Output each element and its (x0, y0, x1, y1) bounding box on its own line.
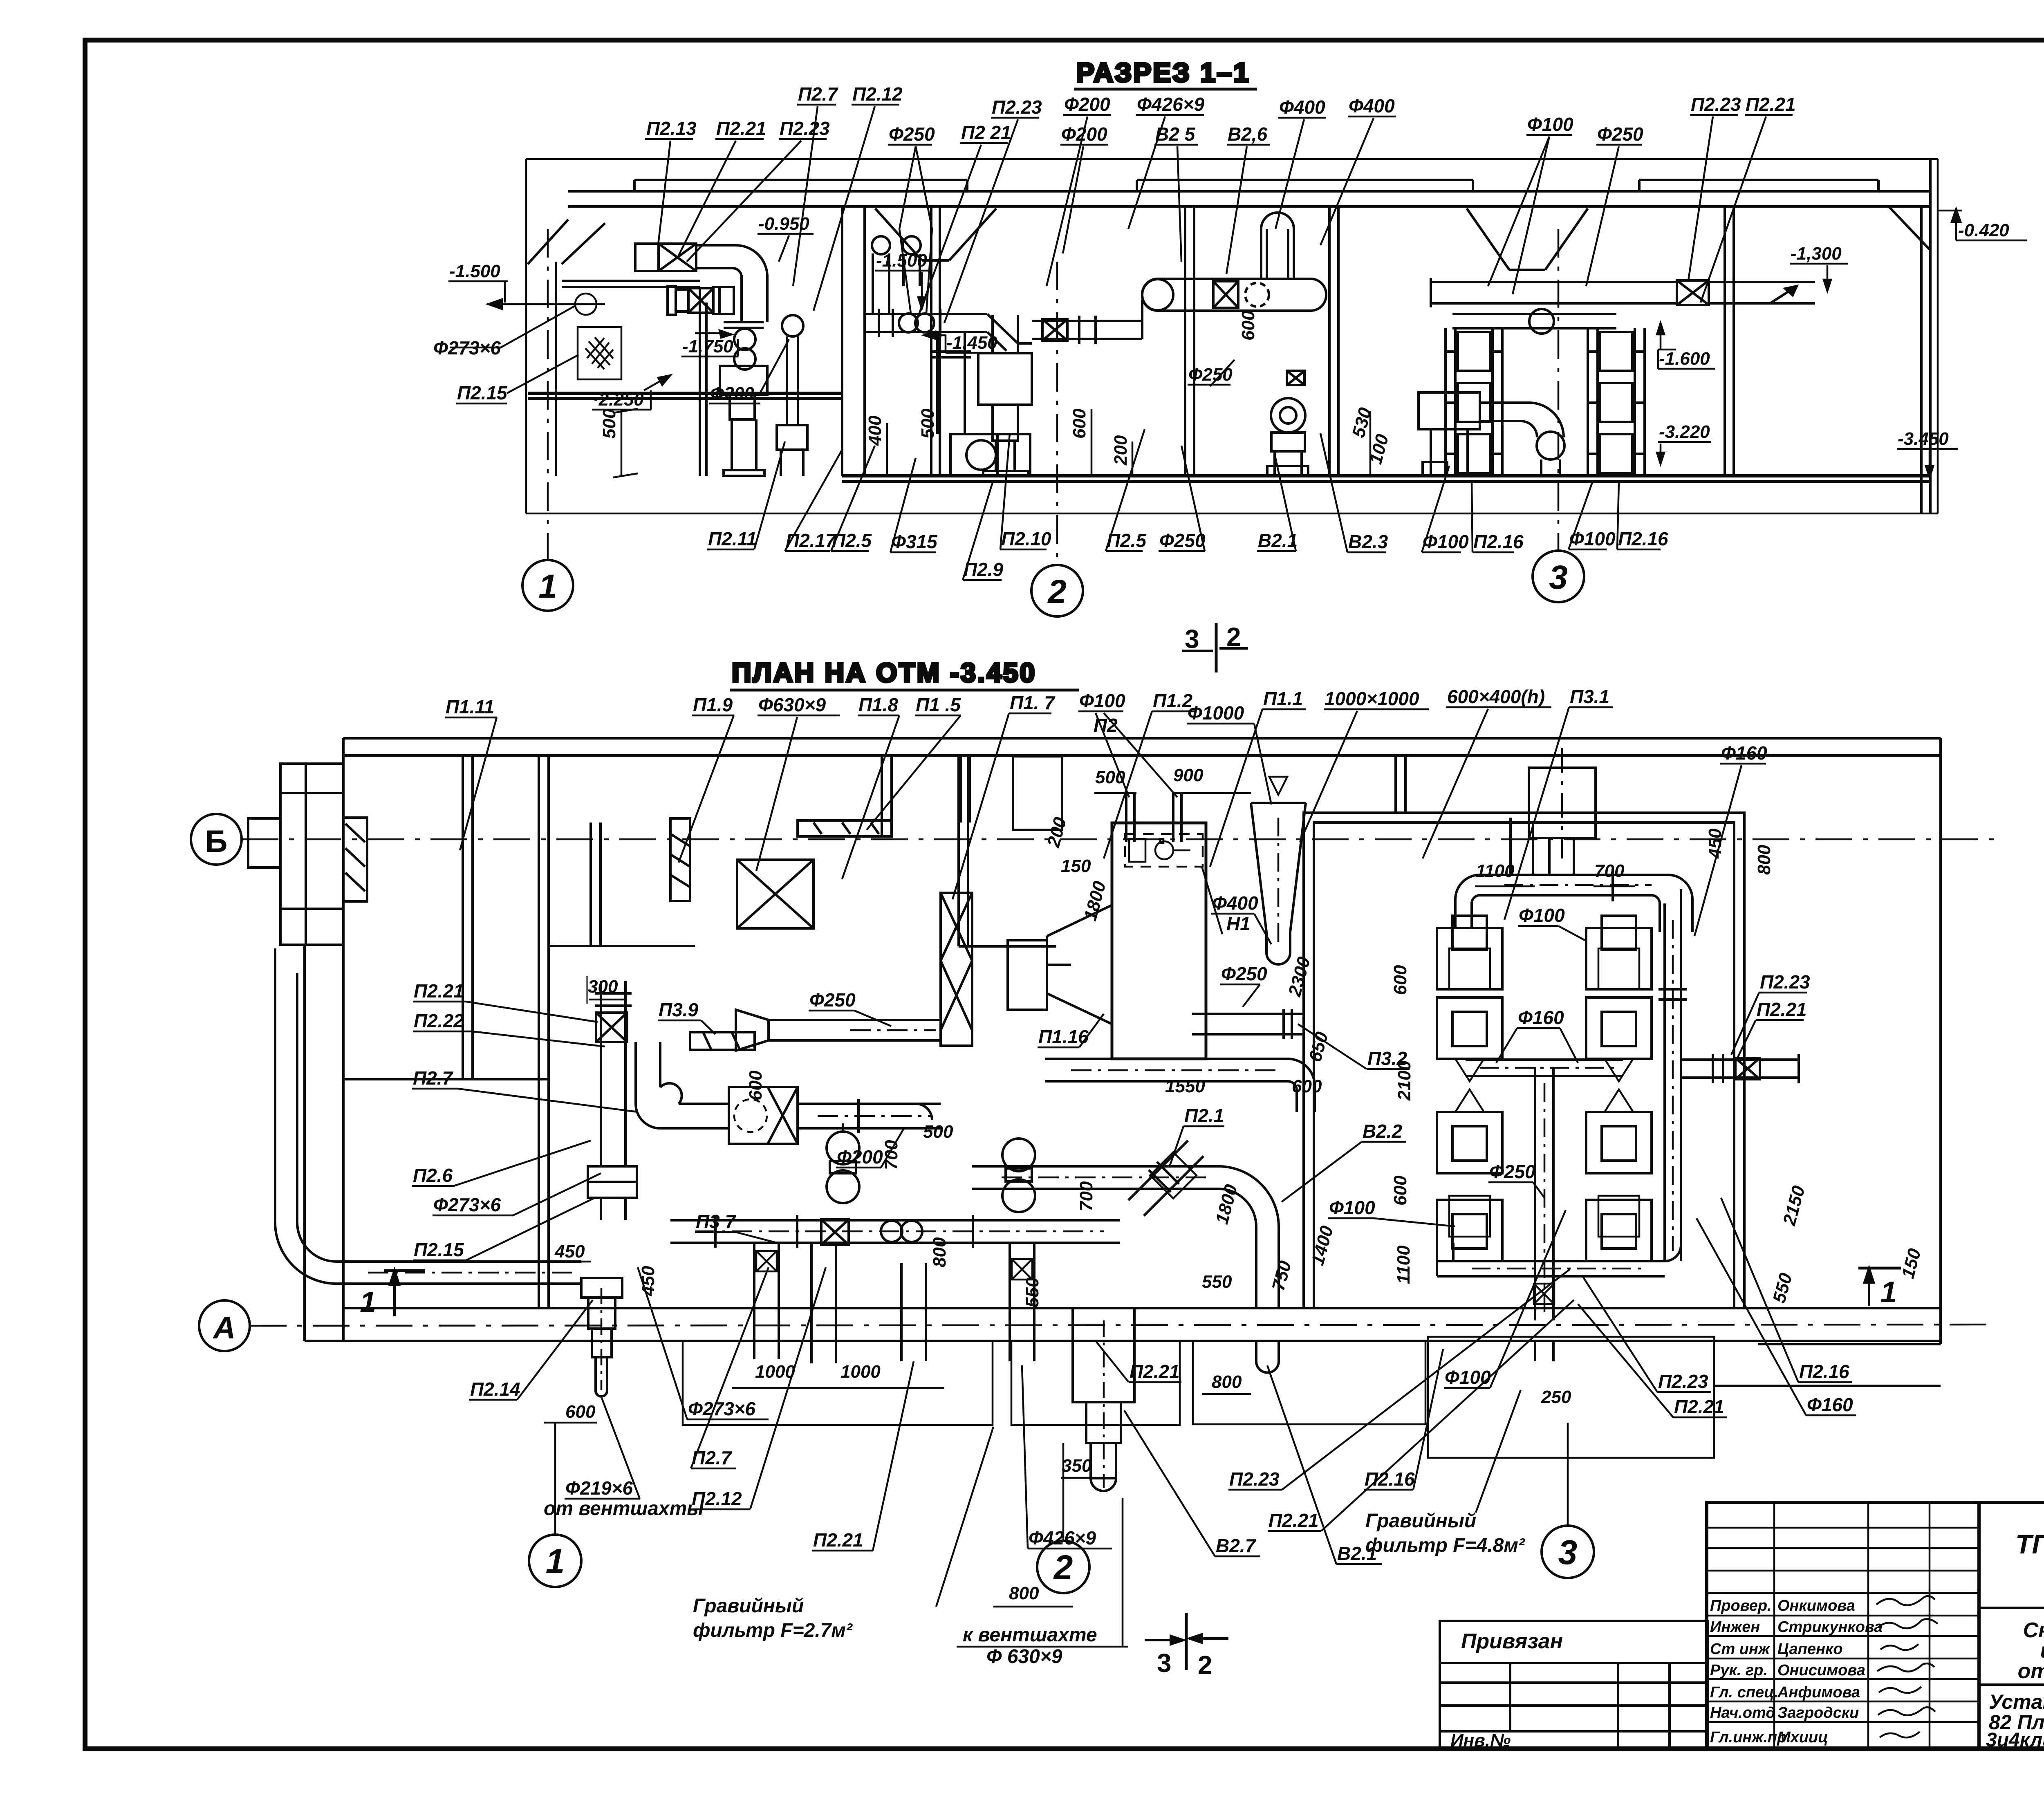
svg-text:Стрикункова: Стрикункова (1777, 1618, 1883, 1636)
svg-text:1000: 1000 (840, 1362, 881, 1382)
section 1-1 title (1074, 57, 1257, 89)
svg-text:Ф200: Ф200 (837, 1146, 883, 1168)
svg-text:П2.7: П2.7 (413, 1067, 453, 1089)
svg-text:Привязан: Привязан (1461, 1629, 1563, 1653)
svg-text:Ф400: Ф400 (1279, 96, 1325, 118)
lower duct run left (668, 286, 734, 315)
svg-text:Установка систем П1÷П3,: Установка систем П1÷П3, (1989, 1690, 2044, 1713)
svg-text:700: 700 (1594, 861, 1625, 881)
svg-text:П2.13: П2.13 (646, 118, 697, 139)
gravel filter text right (1365, 1510, 1526, 1556)
svg-text:В2.7: В2.7 (1216, 1535, 1257, 1556)
svg-text:П1.2: П1.2 (1153, 690, 1192, 711)
svg-text:-1.750: -1.750 (682, 336, 733, 356)
svg-text:фильтр F=4.8м²: фильтр F=4.8м² (1365, 1535, 1526, 1556)
svg-text:Ф160: Ф160 (1518, 1007, 1564, 1028)
vertical duct Ф315 with elbow box (931, 332, 1030, 476)
svg-text:П2.23: П2.23 (992, 96, 1042, 118)
svg-text:П3 7: П3 7 (696, 1211, 736, 1232)
45 deg duct piece (987, 314, 1032, 351)
svg-text:Ф400: Ф400 (1212, 892, 1258, 914)
duct from top box into chamber (1549, 838, 1574, 876)
svg-text:500: 500 (1095, 767, 1125, 787)
svg-text:Ф250: Ф250 (1489, 1161, 1535, 1182)
svg-text:200: 200 (1111, 435, 1131, 466)
svg-text:400: 400 (865, 415, 885, 446)
twin pump unit left (827, 1123, 859, 1203)
svg-text:П2.5: П2.5 (1107, 530, 1147, 551)
unit П1.8 with X (737, 860, 814, 928)
left building wall of section (556, 223, 706, 476)
svg-text:П2.21: П2.21 (1757, 999, 1807, 1020)
svg-text:Гл. спец.: Гл. спец. (1710, 1684, 1778, 1701)
svg-text:550: 550 (1022, 1277, 1042, 1307)
svg-text:ПЛАН НА ОТМ -3.450: ПЛАН НА ОТМ -3.450 (732, 657, 1036, 688)
duct from П2.13 to elbow (696, 245, 767, 277)
svg-text:250: 250 (1541, 1387, 1571, 1407)
svg-text:-1.600: -1.600 (1659, 349, 1710, 369)
svg-text:П2.23: П2.23 (1760, 971, 1810, 993)
svg-text:П1.11: П1.11 (446, 696, 494, 717)
svg-text:1100: 1100 (1394, 1245, 1414, 1284)
grille П2.15 (578, 327, 621, 379)
dome stack Ф400 (1261, 213, 1294, 279)
svg-text:П2.12: П2.12 (852, 83, 903, 105)
filter cluster lower (1437, 1089, 1652, 1261)
привязан box (1440, 1621, 1708, 1748)
filter tower П2.16 right (1588, 328, 1645, 476)
svg-text:П2.21: П2.21 (1269, 1510, 1319, 1531)
svg-text:П2.21: П2.21 (1674, 1396, 1724, 1417)
svg-text:Ф160: Ф160 (1807, 1394, 1853, 1415)
lower thin duct right room (1452, 309, 1616, 334)
П2.14 stub (581, 1278, 622, 1396)
gravel filter text left (693, 1595, 853, 1641)
svg-text:П2.16: П2.16 (1618, 528, 1668, 549)
svg-text:1000×1000: 1000×1000 (1325, 688, 1419, 709)
svg-text:150: 150 (1061, 856, 1091, 876)
transition П1.16 (1008, 905, 1112, 1024)
svg-text:П2.21: П2.21 (414, 980, 464, 1002)
svg-text:2100: 2100 (1394, 1060, 1414, 1101)
svg-text:800: 800 (930, 1237, 950, 1267)
stamp rows left part (1707, 1502, 1979, 1748)
svg-text:Ф250: Ф250 (809, 989, 856, 1011)
doc number text (2015, 1529, 2044, 1559)
svg-text:Рук. гр.: Рук. гр. (1710, 1662, 1768, 1679)
plan interior small room walls (549, 755, 892, 946)
svg-text:Гравийный: Гравийный (1365, 1510, 1476, 1532)
svg-text:Ф273×6: Ф273×6 (433, 1194, 501, 1215)
plan bottom labels (469, 1198, 1856, 1607)
svg-text:-3.220: -3.220 (1659, 422, 1710, 442)
svg-text:Ф160: Ф160 (1721, 742, 1767, 764)
intake pipe from ventshaft (275, 948, 581, 1284)
big cylinder duct В2.5 В2.6 (1122, 279, 1326, 339)
svg-text:Ф250: Ф250 (889, 123, 935, 145)
duct П1.6 bottom run (972, 1166, 1279, 1308)
svg-text:600×400(h): 600×400(h) (1447, 686, 1545, 707)
svg-text:350: 350 (1062, 1456, 1092, 1476)
hanging unit П2.13 (635, 244, 696, 271)
from ventshaft text (544, 1498, 704, 1520)
section marks 1 in plan (360, 1268, 1901, 1319)
svg-text:Ф315: Ф315 (891, 531, 938, 552)
vertical duct from П2.15 down (601, 1198, 625, 1220)
svg-text:800: 800 (1754, 845, 1774, 875)
svg-text:П2.21: П2.21 (1746, 94, 1796, 115)
svg-text:·2.250: ·2.250 (593, 390, 644, 410)
svg-text:Ф426×9: Ф426×9 (1137, 94, 1205, 115)
plan left annex (248, 764, 343, 945)
svg-text:450: 450 (554, 1242, 585, 1262)
svg-text:600: 600 (1238, 310, 1258, 341)
svg-text:Ф250: Ф250 (1159, 530, 1206, 551)
svg-text:-3.450: -3.450 (1898, 429, 1949, 449)
svg-text:1550: 1550 (1165, 1076, 1205, 1096)
section outer boundary (526, 159, 1938, 513)
svg-text:-0.950: -0.950 (758, 214, 809, 234)
svg-text:П3.1: П3.1 (1570, 686, 1609, 707)
small risers at 500 900 dims (1126, 793, 1181, 842)
svg-text:П2.6: П2.6 (413, 1165, 453, 1186)
chamber bottom ring duct (1437, 1243, 1681, 1276)
svg-text:Ф250: Ф250 (1221, 963, 1267, 984)
svg-text:Ф100: Ф100 (1527, 114, 1573, 135)
section top labels row (645, 83, 1796, 323)
svg-text:П1. 7: П1. 7 (1010, 692, 1056, 713)
svg-text:Ф200: Ф200 (710, 383, 754, 403)
object name text (2018, 1618, 2044, 1683)
duct with valve П2.5 (1032, 316, 1142, 344)
svg-text:3: 3 (1558, 1533, 1578, 1571)
П2.15 silencer (588, 1166, 637, 1198)
svg-text:550: 550 (1202, 1272, 1232, 1292)
left riser Ф273x6 (595, 981, 632, 1166)
lower duct run y3010 (670, 1215, 1120, 1248)
svg-text:700: 700 (1076, 1181, 1096, 1211)
svg-text:300: 300 (588, 977, 618, 997)
to ventshaft text (963, 1624, 1097, 1668)
svg-text:П2.23: П2.23 (1691, 94, 1741, 115)
bellmouth П3.9 duct (736, 1010, 941, 1051)
signature squiggles (1876, 1596, 1938, 1737)
axis А (199, 1300, 1995, 1351)
axis Б (191, 814, 1995, 865)
svg-text:800: 800 (1212, 1372, 1242, 1392)
svg-text:2: 2 (1047, 573, 1067, 610)
svg-text:600: 600 (1292, 1076, 1322, 1096)
leader lines top labels (658, 141, 670, 244)
slot П3.9 (690, 1032, 755, 1050)
svg-text:П2.21: П2.21 (716, 118, 766, 139)
svg-text:В2.3: В2.3 (1348, 531, 1388, 552)
svg-text:2: 2 (1198, 1650, 1213, 1680)
supply unit with fan dashed circle (729, 1087, 798, 1144)
pipe stack П2.17 (777, 315, 807, 476)
svg-text:Цапенко: Цапенко (1777, 1641, 1843, 1658)
svg-text:Ф100: Ф100 (1445, 1367, 1491, 1388)
svg-text:П1.9: П1.9 (693, 694, 733, 715)
section roof slab (528, 180, 1930, 264)
svg-text:П2.23: П2.23 (780, 118, 830, 139)
svg-text:-1,300: -1,300 (1791, 244, 1842, 264)
svg-text:отдельно стоящий: отдельно стоящий (2018, 1659, 2044, 1683)
svg-text:500: 500 (918, 408, 938, 439)
plan cut mark 3|2 top (1182, 622, 1248, 672)
svg-text:Гравийный: Гравийный (693, 1595, 804, 1617)
unit П2.5 with elbow duct (1419, 392, 1564, 476)
svg-text:П2.7: П2.7 (798, 83, 838, 105)
duct run from П1.16 with U-bend (1045, 1059, 1315, 1112)
П2.7 elbow duct to unit (636, 1042, 729, 1128)
svg-text:900: 900 (1173, 765, 1204, 785)
svg-text:3: 3 (1185, 624, 1199, 654)
heater Н1 dashed (1125, 834, 1203, 867)
section interior walls (842, 159, 1930, 513)
svg-text:Ф250: Ф250 (1188, 365, 1233, 385)
duct run middle with dampers П2.21 П2.23 (865, 309, 987, 337)
svg-text:Ф630×9: Ф630×9 (758, 694, 826, 715)
svg-text:П2.11: П2.11 (708, 528, 757, 549)
filter tower П2.16 left (1446, 328, 1502, 476)
plan axis circles bottom (529, 1423, 1594, 1593)
svg-text:600: 600 (746, 1070, 766, 1100)
svg-text:Ф200: Ф200 (1064, 94, 1110, 115)
svg-text:Ф100: Ф100 (1519, 905, 1565, 926)
svg-text:фильтр F=2.7м²: фильтр F=2.7м² (693, 1620, 853, 1641)
plan bottom-right wall step (1714, 1344, 1941, 1386)
svg-text:Б: Б (205, 824, 228, 859)
section bottom labels (707, 429, 1668, 580)
svg-text:к вентшахте: к вентшахте (963, 1624, 1097, 1646)
plan title (730, 657, 1079, 690)
svg-text:П1.8: П1.8 (858, 694, 898, 715)
svg-text:П2.15: П2.15 (457, 382, 508, 403)
funnel П3.1 (1251, 777, 1306, 964)
fan В2.1 with pedestal (1267, 371, 1308, 476)
rect on top wall mid (1013, 756, 1062, 830)
svg-text:П2.16: П2.16 (1365, 1468, 1415, 1490)
twin pump unit right (1002, 1139, 1035, 1212)
plan top labels (445, 686, 1767, 936)
svg-text:Нач.отд: Нач.отд (1710, 1704, 1775, 1721)
plan interior wall top-left room (343, 755, 549, 1308)
svg-text:Ст инж: Ст инж (1710, 1641, 1771, 1658)
diagonal duct П2.1 (1128, 1141, 1204, 1216)
svg-text:450: 450 (638, 1266, 658, 1296)
plan mid labels (638, 765, 1810, 1307)
floor unit П2.10 (978, 353, 1032, 476)
plan left labels (412, 976, 638, 1260)
filter cluster upper (1437, 916, 1652, 1081)
svg-text:2: 2 (1226, 622, 1241, 652)
svg-text:600: 600 (1390, 965, 1410, 995)
svg-text:1: 1 (1880, 1276, 1897, 1309)
svg-text:П2.21: П2.21 (813, 1529, 863, 1551)
svg-text:Ф1000: Ф1000 (1188, 702, 1244, 724)
section axes circles 1 2 3 (522, 229, 1584, 616)
svg-text:600: 600 (1069, 408, 1089, 439)
chamber top duct Ф100 (1455, 869, 1692, 932)
svg-text:2: 2 (1053, 1548, 1073, 1587)
svg-text:1: 1 (538, 568, 557, 605)
svg-text:РАЗРЕЗ 1–1: РАЗРЕЗ 1–1 (1076, 57, 1250, 87)
svg-text:-0.420: -0.420 (1958, 220, 2009, 240)
svg-text:П2.23: П2.23 (1658, 1371, 1708, 1392)
sheet title text (1986, 1690, 2044, 1751)
slot diffuser П1.5 (798, 820, 892, 836)
Ф250 riser in chamber (1534, 1067, 1554, 1361)
svg-text:Инжен: Инжен (1710, 1618, 1760, 1636)
left room level line (488, 294, 605, 315)
svg-text:Провер.: Провер. (1710, 1597, 1772, 1614)
plan right chamber walls (1304, 755, 1744, 1308)
plan pits (683, 1337, 1714, 1458)
svg-text:П2.16: П2.16 (1473, 531, 1524, 552)
svg-text:А: А (213, 1311, 236, 1345)
svg-text:Ф250: Ф250 (1597, 123, 1643, 145)
П2.22 valve box (596, 1013, 627, 1042)
svg-text:Онисимова: Онисимова (1777, 1662, 1865, 1679)
section floors (528, 393, 1930, 482)
svg-text:П2.1: П2.1 (1184, 1105, 1224, 1126)
svg-text:от вентшахты: от вентшахты (544, 1498, 704, 1520)
svg-text:П2.9: П2.9 (964, 559, 1003, 580)
svg-text:Ф100: Ф100 (1079, 690, 1125, 711)
svg-text:1: 1 (546, 1542, 565, 1580)
svg-text:П2 21: П2 21 (961, 122, 1011, 143)
title block right dividers (1979, 1608, 2044, 1748)
plan interior wall 2 (959, 755, 1056, 946)
roof funnel left (875, 208, 996, 260)
svg-text:3: 3 (1549, 559, 1568, 596)
roof funnel right (1467, 208, 1588, 270)
svg-text:П2.14: П2.14 (470, 1378, 520, 1400)
svg-text:800: 800 (1009, 1583, 1039, 1603)
svg-text:Ф219×6: Ф219×6 (565, 1477, 633, 1499)
wall stack П2.17 (872, 236, 921, 315)
svg-text:600: 600 (1390, 1175, 1410, 1206)
svg-text:-1.500: -1.500 (876, 251, 927, 271)
chamber mid duct Ф160 horizontal (1466, 1060, 1623, 1076)
grille П1.10 (670, 818, 690, 901)
svg-text:1: 1 (360, 1286, 376, 1319)
exhaust stubs through bottom wall (754, 1243, 1034, 1363)
chamber dims right side (1390, 845, 1925, 1305)
Ф160 riser (1659, 889, 1687, 1261)
svg-text:Ф100: Ф100 (1329, 1197, 1375, 1218)
svg-text:450: 450 (1705, 828, 1725, 859)
svg-text:В2,6: В2,6 (1228, 123, 1268, 145)
svg-text:Анфимова: Анфимова (1777, 1684, 1860, 1701)
svg-text:Н1: Н1 (1226, 913, 1251, 934)
svg-text:П1.1: П1.1 (1263, 688, 1303, 709)
svg-text:П2.22: П2.22 (414, 1010, 464, 1031)
stub below В2.2 (1256, 1341, 1279, 1373)
svg-text:Ф273×6: Ф273×6 (688, 1398, 756, 1419)
svg-text:Ф400: Ф400 (1349, 95, 1395, 117)
svg-text:Мхииц: Мхииц (1777, 1729, 1828, 1746)
svg-text:П2.16: П2.16 (1799, 1361, 1849, 1382)
vertical duct upper cluster to top (1511, 818, 1533, 875)
heat exchanger П1.6 (941, 893, 972, 1046)
svg-text:П2.21: П2.21 (1130, 1361, 1180, 1382)
svg-text:1000: 1000 (755, 1362, 795, 1382)
svg-text:Онкимова: Онкимова (1777, 1597, 1855, 1614)
svg-text:П2.23: П2.23 (1229, 1468, 1280, 1490)
floor unit П2.11 (720, 366, 767, 476)
title block outer (1707, 1502, 2044, 1748)
svg-text:1100: 1100 (1476, 861, 1515, 881)
big unit П1.1 (1112, 823, 1206, 1059)
svg-text:П2.17: П2.17 (786, 530, 837, 551)
stamp row labels (1710, 1597, 1883, 1746)
svg-text:3: 3 (1157, 1648, 1172, 1678)
svg-text:-1.500: -1.500 (449, 261, 500, 281)
svg-text:600: 600 (565, 1402, 596, 1422)
riser П2 drop (961, 757, 970, 823)
section elevation dims (433, 209, 2027, 477)
vertical duct to П2.9 unit (993, 315, 1018, 353)
branch duct П2.23 П2.21 (1681, 1054, 1799, 1083)
duct unit to П1.6 Ф200 (798, 1099, 941, 1133)
svg-text:700: 700 (881, 1140, 901, 1170)
svg-text:500: 500 (923, 1122, 953, 1142)
svg-text:Загродски: Загродски (1777, 1704, 1859, 1721)
svg-text:-1.450: -1.450 (946, 333, 997, 353)
box on top wall right (1529, 748, 1596, 858)
vertical duct П2.12 (724, 275, 767, 370)
plan outer walls (305, 738, 1941, 1344)
plan cut mark 3|2 bottom (1145, 1613, 1228, 1680)
svg-text:Ф 630×9: Ф 630×9 (986, 1646, 1062, 1668)
duct П1.1 to chamber Ф250 (1192, 1009, 1304, 1039)
upper duct -1.300 (1431, 278, 1815, 307)
svg-text:П2.10: П2.10 (1001, 528, 1051, 549)
svg-text:ТП А-II-600-338.86: ТП А-II-600-338.86 (2015, 1529, 2044, 1559)
svg-text:П3.9: П3.9 (659, 999, 698, 1020)
svg-text:В2.2: В2.2 (1363, 1121, 1403, 1142)
svg-text:Ф100: Ф100 (1423, 531, 1469, 552)
svg-text:П2.15: П2.15 (414, 1239, 464, 1260)
big stub В2.7 к вентшахте (1073, 1308, 1134, 1491)
svg-text:Ф100: Ф100 (1569, 528, 1616, 549)
svg-text:П1 .5: П1 .5 (916, 694, 961, 715)
